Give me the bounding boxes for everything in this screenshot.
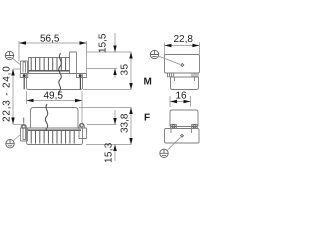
side view F insert: left screw shaft — [23, 118, 25, 124]
svg-text:35: 35 — [120, 63, 131, 75]
end view F: left foot — [171, 124, 177, 128]
end view F: diamond marker — [180, 134, 184, 138]
side view M insert: right face line — [86, 41, 88, 78]
end view M: dimension 22,8 right arrow — [192, 44, 199, 48]
side view F insert: left fixing bracket — [21, 128, 28, 141]
end view F: hood — [165, 129, 200, 144]
dimension 15,5 upper stub — [114, 33, 116, 52]
dimension 56,5 line — [19, 42, 87, 44]
side view M insert: left foot — [20, 74, 28, 78]
dimension 15,3 lower stub — [114, 145, 116, 162]
leader line lower left screw — [13, 134, 21, 141]
end view M: dimension 22,8 left extension — [164, 43, 166, 55]
svg-text:M: M — [144, 77, 152, 88]
dimension 16 right arrow — [184, 100, 191, 104]
dimension 49,5 right arrow — [75, 99, 82, 103]
screw symbol lower left — [6, 140, 14, 148]
side view F insert: body top line — [21, 127, 87, 129]
dimension 56,5 right arrow — [80, 41, 87, 45]
dimension 22,3-24,0 top extension — [13, 68, 21, 70]
svg-text:15,5: 15,5 — [98, 33, 109, 53]
dimension 15,5 top arrow — [113, 46, 117, 53]
dimension 49,5 left extension line — [26, 92, 28, 105]
dimension 16 line — [170, 101, 191, 103]
side view M insert: break squiggle — [59, 53, 62, 94]
side view F insert: right bracket bump — [79, 123, 85, 128]
side view M insert: left fixing bracket — [21, 61, 28, 74]
end view F: left foot circle — [172, 125, 175, 128]
screw symbol upper left — [5, 51, 13, 59]
side view M insert: right screw shaft — [79, 78, 81, 90]
dimension 15,5 lower stub — [114, 69, 116, 79]
side view M insert: ribbed contact block — [29, 58, 70, 74]
side view F insert: contact ribs — [31, 131, 74, 144]
dimension 15,3 top arrow — [113, 118, 117, 125]
side view M insert: right foot screw dot — [79, 74, 82, 77]
dimension 33,8 line — [130, 108, 132, 145]
side view F insert: left bracket circle — [22, 125, 25, 128]
dimension 15,3 upper stub — [114, 110, 116, 125]
dimension 22,3-24,0 bottom extension — [13, 124, 22, 126]
svg-text:F: F — [144, 113, 150, 124]
side view M insert: left bracket screw dot — [23, 74, 26, 77]
extension line F top to 33,8 dim — [79, 107, 132, 109]
dimension 56,5 left extension line — [18, 41, 20, 61]
dimension 49,5 right extension line — [81, 92, 83, 124]
dimension 56,5 left arrow — [19, 41, 26, 45]
end view M: dimension 22,8 left arrow — [165, 44, 172, 48]
extension line top of hook to 35 dim — [87, 51, 132, 53]
side view M insert: lower body — [27, 74, 83, 90]
dimension 15,3 bottom arrow — [113, 145, 117, 152]
svg-text:33,8: 33,8 — [120, 113, 131, 133]
end view M: screw symbol — [150, 50, 158, 58]
side view F insert: left bracket bump — [21, 125, 27, 129]
end view M: hood — [165, 55, 200, 74]
end view M: dimension 22,8 right extension — [198, 43, 200, 55]
side view M insert: left bracket slot — [23, 62, 26, 73]
svg-text:22,3 - 24,0: 22,3 - 24,0 — [2, 65, 13, 122]
extension line body bottom M — [83, 89, 132, 91]
leader line upper left screw — [13, 58, 21, 64]
svg-text:16: 16 — [176, 91, 188, 102]
dimension 22,3-24,0 line — [12, 69, 14, 124]
end view M: dimension 22,8 line — [165, 45, 200, 47]
end view M: right foot — [192, 73, 198, 77]
extension line mounting face M — [87, 68, 118, 70]
end view M: diamond marker — [180, 63, 184, 67]
extension line F body bottom — [86, 144, 132, 146]
side view M insert: rib bottom line — [29, 70, 70, 72]
end view F: right foot circle — [193, 125, 196, 128]
side view F insert: left bracket slot — [23, 129, 26, 140]
end view F: hood ticks — [171, 129, 192, 134]
end view F: right foot — [192, 124, 198, 128]
dimension 49,5 left arrow — [27, 99, 34, 103]
side view M insert: right guide hook — [70, 52, 77, 74]
side view F insert: lower body — [27, 128, 83, 145]
side view M insert: flange bottom line — [21, 73, 87, 75]
dimension 15,5 bottom arrow — [113, 69, 117, 76]
dimension 16 left extension — [169, 96, 171, 107]
side view F insert: right bracket circle — [80, 124, 83, 127]
side view F insert: break squiggle — [45, 104, 47, 131]
side view F insert: right bracket — [79, 128, 87, 139]
end view F: leader to screw — [167, 137, 180, 150]
extension line F mounting face — [87, 124, 117, 126]
end view M: leader to diamond — [158, 56, 180, 64]
end view M: left foot — [168, 73, 174, 77]
dimension 49,5 line — [27, 100, 83, 102]
dimension 16 right extension — [190, 96, 192, 107]
svg-text:49,5: 49,5 — [44, 91, 64, 102]
side view F insert: rib top line — [28, 129, 81, 131]
side view M insert: left screw shaft — [23, 78, 25, 90]
svg-text:15,3: 15,3 — [104, 142, 115, 163]
dimension 35 bottom arrow — [129, 83, 133, 90]
dimension 33,8 bottom arrow — [129, 138, 133, 145]
end view M: body ticks — [175, 77, 195, 81]
dimension 22,3-24,0 bottom arrow — [11, 118, 15, 125]
end view M: insert body — [171, 77, 199, 90]
side view F insert: upper body — [31, 108, 79, 129]
side view M insert: contact ribs — [31, 58, 65, 71]
side view M insert: right foot — [77, 74, 87, 78]
dimension 35 top arrow — [129, 52, 133, 59]
end view F: screw symbol — [160, 149, 168, 157]
svg-text:56,5: 56,5 — [40, 34, 60, 45]
dimension 35 line — [130, 52, 132, 90]
dimension 22,3-24,0 top arrow — [11, 69, 15, 76]
dimension 16 left arrow — [170, 100, 177, 104]
dimension 33,8 top arrow — [129, 108, 133, 115]
svg-text:22,8: 22,8 — [174, 34, 194, 45]
end view F: insert body — [170, 110, 198, 127]
